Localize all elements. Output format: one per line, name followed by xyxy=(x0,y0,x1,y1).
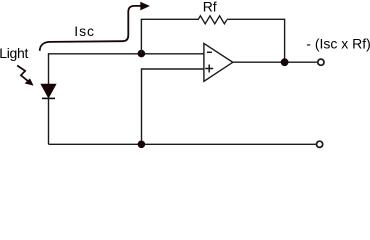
resistor Rf xyxy=(198,16,227,24)
light arrow (lightning bolt) xyxy=(17,66,33,86)
wire: top horizontal (photodiode cathode to inverting input) xyxy=(49,53,205,55)
wire: left vertical above photodiode xyxy=(48,53,50,84)
output terminal (upper) xyxy=(318,59,324,65)
wire: bottom rail xyxy=(49,143,316,145)
svg-text:Isc: Isc xyxy=(74,23,95,39)
wire: left vertical below photodiode xyxy=(48,98,50,144)
Isc current arrow xyxy=(40,2,150,51)
svg-text:Rf: Rf xyxy=(203,0,217,15)
op-amp U1 xyxy=(204,43,233,81)
svg-text:- (Isc x Rf): - (Isc x Rf) xyxy=(306,35,370,51)
node: junction dot on bottom rail xyxy=(138,141,146,149)
wire: feedback right segment with vertical down to output node xyxy=(227,19,285,62)
output terminal (lower) xyxy=(317,141,323,147)
wire: non-inverting input horizontal xyxy=(142,68,205,70)
node: junction dot at inverting input xyxy=(138,50,146,58)
wire: op-amp output xyxy=(233,61,317,63)
node: junction dot at output/feedback xyxy=(281,58,289,66)
svg-text:Light: Light xyxy=(0,45,28,61)
wire: vertical from junction up to feedback xyxy=(140,19,142,53)
wire: feedback left segment xyxy=(141,18,198,20)
wire: vertical from non-inverting input down to bottom rail xyxy=(141,68,143,144)
photodiode D1 xyxy=(41,84,56,98)
